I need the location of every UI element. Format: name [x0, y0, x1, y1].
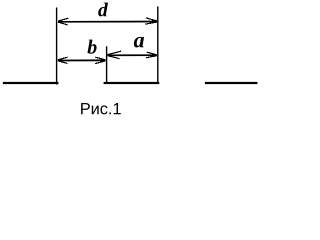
label b: [87, 40, 96, 54]
dimension arrow a: shaft: [108, 54, 157, 56]
label d: [98, 3, 108, 17]
baseline right segment: [205, 82, 258, 84]
dimension arrow b: shaft: [58, 59, 106, 61]
caption Рис.1: [81, 103, 121, 114]
arrowhead b left: [58, 57, 67, 63]
left extension line (rising edge of left pulse): [56, 8, 58, 85]
middle extension line: [106, 46, 108, 83]
right extension line: [157, 7, 159, 84]
arrowhead b right: [95, 57, 105, 64]
dimension arrow d: shaft: [58, 21, 157, 23]
arrowhead d right: [145, 18, 156, 24]
baseline left segment: [3, 82, 59, 84]
arrowhead a right: [146, 52, 156, 58]
arrowhead a left: [108, 51, 121, 59]
label a: [134, 37, 144, 48]
arrowhead d left: [58, 18, 68, 25]
baseline middle segment (bottom of slot): [104, 82, 160, 84]
